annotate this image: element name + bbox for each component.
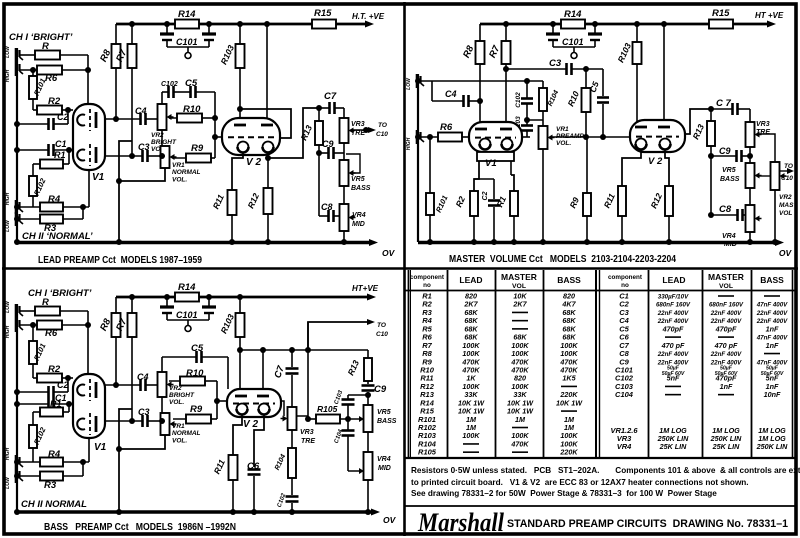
svg-text:VR4: VR4 xyxy=(352,212,366,219)
svg-text:C102: C102 xyxy=(161,81,178,88)
table row R105 xyxy=(418,448,578,457)
resistor R105 bass xyxy=(308,404,364,424)
svg-text:HIGH: HIGH xyxy=(406,137,412,150)
resistor R11 bass xyxy=(212,415,242,512)
wire - R7 node to ground bus xyxy=(119,141,132,242)
svg-text:R105: R105 xyxy=(418,448,437,457)
table row R1 xyxy=(422,292,575,301)
resistor R101 master xyxy=(426,137,450,242)
svg-text:1nF: 1nF xyxy=(766,324,779,333)
resistor R13 master xyxy=(690,109,715,156)
svg-text:TRE: TRE xyxy=(301,438,315,445)
svg-text:MID: MID xyxy=(352,221,365,228)
capacitor C6 bass xyxy=(247,415,264,512)
capacitor C4 bass xyxy=(105,372,158,391)
svg-text:C3: C3 xyxy=(549,58,562,69)
wire - V2 plate 2 supply master xyxy=(663,24,665,128)
resistor R5 bass xyxy=(20,297,88,316)
triode V1 master xyxy=(469,122,522,169)
svg-text:LOW: LOW xyxy=(406,77,412,90)
svg-text:VOL.: VOL. xyxy=(556,140,571,147)
junction dots BASS xyxy=(14,294,371,515)
table row R15 xyxy=(420,407,577,416)
table row R101 xyxy=(418,415,575,424)
svg-text:V1: V1 xyxy=(485,158,497,169)
wire - C102 to VR1 top xyxy=(527,119,543,121)
svg-text:TO: TO xyxy=(378,122,387,129)
wire - C102 bottom to V1 grid xyxy=(522,136,530,138)
resistor R103 master xyxy=(615,24,641,128)
potentiometer VR5 bass xyxy=(340,154,371,204)
svg-text:LEAD: LEAD xyxy=(459,275,482,285)
wire - master input ground bus xyxy=(417,74,419,242)
svg-text:10nF: 10nF xyxy=(764,390,781,399)
arrow HT +ve master xyxy=(755,11,784,28)
svg-text:V 2: V 2 xyxy=(243,419,258,430)
resistor R6 bass xyxy=(20,321,88,340)
table row R12 xyxy=(420,382,577,391)
svg-text:R4: R4 xyxy=(48,194,61,205)
resistor R10 bass xyxy=(169,368,217,386)
svg-text:C 7: C 7 xyxy=(716,98,732,109)
svg-text:C8: C8 xyxy=(719,204,732,215)
resistor R103 bass xyxy=(218,297,244,397)
Marshall logo xyxy=(417,508,788,537)
table row C4 xyxy=(619,316,788,325)
svg-text:VR2: VR2 xyxy=(779,194,792,201)
svg-text:LEAD PREAMP Cct MODELS 1987–1: LEAD PREAMP Cct MODELS 1987–1959 xyxy=(38,255,202,266)
svg-text:NORMAL: NORMAL xyxy=(172,430,201,437)
wire - input ground bus bass xyxy=(16,304,18,512)
resistor R2 master xyxy=(453,161,479,242)
quadrant divider vertical xyxy=(403,2,406,536)
svg-text:22nF 400V: 22nF 400V xyxy=(710,351,742,358)
svg-text:TRE: TRE xyxy=(756,129,770,136)
triode V1 bass xyxy=(73,374,107,453)
svg-text:1K5: 1K5 xyxy=(562,374,576,383)
svg-text:C9: C9 xyxy=(719,146,731,156)
input jack master high xyxy=(406,130,424,150)
resistor R9 master xyxy=(567,137,591,242)
node CH I BRIGHT xyxy=(9,32,73,43)
resistor R2 bass xyxy=(33,364,68,383)
triode V2 bass xyxy=(227,389,281,430)
potentiometer VR4 mid xyxy=(340,204,366,242)
svg-text:R15: R15 xyxy=(314,8,332,19)
wire - box right to V2 bass xyxy=(227,357,229,389)
resistor R1 master xyxy=(494,161,518,242)
svg-text:C6: C6 xyxy=(247,461,260,472)
svg-text:R14: R14 xyxy=(564,9,582,20)
resistor R101 xyxy=(29,70,48,110)
svg-text:NORMAL: NORMAL xyxy=(172,169,201,176)
capacitor C5 master xyxy=(588,69,609,137)
svg-text:R4: R4 xyxy=(48,449,61,460)
table row R14 xyxy=(420,398,583,407)
resistor R1 xyxy=(33,150,69,176)
wire - V2 plate to cathode follower grid xyxy=(240,109,291,138)
svg-text:220K: 220K xyxy=(559,448,578,457)
svg-text:STANDARD PREAMP CIRCUITS DRAW: STANDARD PREAMP CIRCUITS DRAWING No. 783… xyxy=(507,518,788,530)
svg-text:V 2: V 2 xyxy=(648,156,663,167)
wire - VR3 wiper to VR2 xyxy=(757,134,775,162)
resistor R15 xyxy=(312,8,336,29)
svg-text:VR3: VR3 xyxy=(756,121,770,128)
wire - LEAD HT supply rail xyxy=(116,23,366,26)
svg-text:LOW: LOW xyxy=(5,219,11,232)
capacitor C3 master xyxy=(506,58,603,75)
title MASTER VOLUME xyxy=(449,254,676,265)
resistor R5 xyxy=(20,41,88,60)
triode V1 xyxy=(73,104,105,183)
svg-text:470pF: 470pF xyxy=(715,324,737,333)
resistor R2 xyxy=(33,96,68,115)
wire - VR1 wiper to V2 grid xyxy=(551,136,630,138)
capacitor C101 bass xyxy=(160,297,216,332)
svg-text:C9: C9 xyxy=(374,384,387,395)
svg-text:MASTER: MASTER xyxy=(501,272,537,282)
svg-text:VOL.: VOL. xyxy=(172,177,187,184)
table row R7 xyxy=(422,341,578,350)
capacitor C4 xyxy=(105,106,158,125)
wire - R4 to V1 cathode xyxy=(88,170,90,207)
triode V2 xyxy=(222,118,280,168)
resistor R101 bass xyxy=(29,325,48,378)
table row R102 xyxy=(418,423,575,432)
potentiometer VR1 normal volume xyxy=(119,146,201,184)
svg-text:BASS PREAMP Cct MODELS 19: BASS PREAMP Cct MODELS 1986N –1992N xyxy=(44,522,236,533)
svg-text:to printed circuit board. V1: to printed circuit board. V1 & V2 are EC… xyxy=(411,478,749,487)
notes text xyxy=(411,466,800,498)
resistor R6 xyxy=(20,66,88,85)
potentiometer VR5 bass master xyxy=(720,163,771,205)
svg-text:R10: R10 xyxy=(183,104,201,115)
table row R2 xyxy=(422,300,576,309)
resistor R12 xyxy=(245,153,272,242)
wire - C103 column bass xyxy=(348,395,368,471)
table row VR3 xyxy=(617,434,786,443)
wire - VR3 to R105 xyxy=(296,322,308,419)
capacitor C8 master xyxy=(711,156,746,221)
table row R8 xyxy=(422,349,578,358)
svg-text:VR5: VR5 xyxy=(377,409,391,416)
svg-text:R9: R9 xyxy=(191,143,204,154)
svg-text:V1: V1 xyxy=(92,172,105,183)
svg-text:LEAD: LEAD xyxy=(662,275,685,285)
svg-text:C9: C9 xyxy=(322,139,334,149)
resistor R13 bass xyxy=(345,350,372,384)
wire - low input to R104 xyxy=(421,81,543,101)
wire - V2 grid feed xyxy=(215,92,222,158)
wire - BASS 0V rail xyxy=(17,509,397,526)
resistor R104 bass xyxy=(274,448,296,495)
svg-text:10K 1W: 10K 1W xyxy=(556,398,583,407)
svg-text:VR5: VR5 xyxy=(722,167,736,174)
svg-text:330µF/10V: 330µF/10V xyxy=(658,294,689,301)
svg-text:470 pF: 470 pF xyxy=(661,341,685,350)
wire - output to C10 bass xyxy=(308,319,388,350)
capacitor C8 xyxy=(319,153,340,222)
capacitor C2 xyxy=(17,110,73,130)
capacitor C5 bass xyxy=(162,343,228,363)
capacitor C3 xyxy=(105,142,162,162)
svg-text:C2: C2 xyxy=(57,112,69,122)
svg-text:BRIGHT: BRIGHT xyxy=(151,139,177,146)
resistor R10 xyxy=(169,104,215,123)
svg-text:R10: R10 xyxy=(186,368,204,379)
capacitor C101 master xyxy=(546,24,602,59)
capacitor C102 C103 master xyxy=(515,81,533,137)
table row C6 xyxy=(619,333,788,342)
svg-text:R1: R1 xyxy=(50,399,62,409)
svg-text:R6: R6 xyxy=(440,122,453,133)
svg-text:H.T. +VE: H.T. +VE xyxy=(352,12,385,21)
svg-text:BASS: BASS xyxy=(557,275,581,285)
wire - LEAD 0V rail xyxy=(17,239,396,258)
wire - plate node bass xyxy=(240,350,368,397)
svg-text:V 2: V 2 xyxy=(246,157,261,168)
svg-text:25K LIN: 25K LIN xyxy=(659,442,688,451)
capacitor C3 bass xyxy=(105,407,162,427)
potentiometer VR1 normal volume bass xyxy=(119,413,201,449)
svg-text:R9: R9 xyxy=(190,404,203,415)
resistor R102 bass xyxy=(29,425,48,462)
resistor R6 master xyxy=(421,122,469,142)
svg-text:1nF: 1nF xyxy=(720,382,733,391)
svg-text:R2: R2 xyxy=(48,96,61,107)
svg-text:VR3: VR3 xyxy=(351,121,365,128)
table row R104 xyxy=(418,439,578,448)
svg-text:C4: C4 xyxy=(445,89,457,99)
svg-text:470 pF: 470 pF xyxy=(714,341,738,350)
svg-text:VOL.: VOL. xyxy=(169,399,184,406)
svg-text:CH II NORMAL: CH II NORMAL xyxy=(21,499,87,510)
svg-text:OV: OV xyxy=(383,515,397,525)
potentiometer VR2 bright volume bass xyxy=(158,357,195,421)
wire - MASTER 0V rail xyxy=(418,239,792,258)
table row R9 xyxy=(422,357,578,366)
resistor R15 master xyxy=(709,8,733,29)
table row R5 xyxy=(422,324,576,333)
svg-text:Resistors 0·5W unless stated.: Resistors 0·5W unless stated. PCB ST1–20… xyxy=(411,466,800,475)
resistor R14 xyxy=(175,9,199,29)
table row C104 xyxy=(615,390,781,399)
resistor R14 bass xyxy=(175,282,199,302)
svg-text:HT+VE: HT+VE xyxy=(352,284,379,293)
input jack CH I low xyxy=(5,62,23,82)
svg-text:VR4: VR4 xyxy=(377,456,391,463)
resistor R11 master xyxy=(602,149,641,242)
svg-text:no: no xyxy=(423,282,431,289)
input jack bass CH II high xyxy=(5,447,23,469)
table row C5 xyxy=(619,324,779,333)
potentiometer VR1 preamp volume xyxy=(539,126,585,242)
capacitor C7 master xyxy=(711,98,750,115)
capacitor C104 bass xyxy=(334,428,355,444)
svg-text:BASS: BASS xyxy=(377,418,397,425)
wire - R7 node to ground bus bass xyxy=(119,409,132,512)
svg-text:CH I ‘BRIGHT’: CH I ‘BRIGHT’ xyxy=(28,288,92,299)
svg-text:CH II ‘NORMAL’: CH II ‘NORMAL’ xyxy=(22,231,93,242)
potentiometer VR2 master volume xyxy=(771,162,795,242)
svg-text:C5: C5 xyxy=(191,343,204,354)
capacitor C103 bass xyxy=(334,389,355,405)
svg-text:VR1: VR1 xyxy=(556,126,569,133)
wire - C104 to VR4 wiper xyxy=(348,468,364,474)
svg-text:250K LIN: 250K LIN xyxy=(756,442,789,451)
svg-text:VR2: VR2 xyxy=(151,132,164,139)
table row VR4 xyxy=(617,442,788,451)
svg-text:VOL: VOL xyxy=(719,283,733,290)
resistor R9 xyxy=(173,143,215,163)
capacitor C7 bass xyxy=(272,350,298,407)
svg-text:VR1: VR1 xyxy=(172,162,185,169)
table row C103 xyxy=(615,382,779,391)
svg-text:R: R xyxy=(42,41,49,52)
svg-text:R1: R1 xyxy=(54,150,66,160)
resistor R4 xyxy=(20,194,89,212)
title LEAD PREAMP xyxy=(38,255,202,266)
svg-text:MAS: MAS xyxy=(779,202,794,209)
svg-text:47nF 400V: 47nF 400V xyxy=(756,302,788,309)
wire - input ground bus xyxy=(16,48,18,242)
capacitor C1 xyxy=(17,139,73,156)
table row C101 xyxy=(615,365,784,377)
resistor R102 xyxy=(29,176,48,207)
svg-text:C10: C10 xyxy=(781,175,793,182)
svg-text:R14: R14 xyxy=(178,9,196,20)
svg-text:C10: C10 xyxy=(376,331,388,338)
table row C7 xyxy=(619,341,779,350)
svg-text:R14: R14 xyxy=(178,282,196,293)
svg-text:R105: R105 xyxy=(317,404,338,414)
capacitor C102 bass xyxy=(277,492,299,512)
capacitor C4 master xyxy=(432,89,480,107)
svg-text:1M: 1M xyxy=(515,415,526,424)
table row C9 xyxy=(619,357,788,366)
svg-text:22nF 400V: 22nF 400V xyxy=(657,351,689,358)
svg-text:HIGH: HIGH xyxy=(5,192,11,205)
capacitor C9 xyxy=(319,139,344,159)
svg-text:LOW: LOW xyxy=(5,45,11,58)
svg-text:MASTER VOLUME Cct MODELS 2: MASTER VOLUME Cct MODELS 2103-2104-2203-… xyxy=(449,254,676,265)
svg-text:BASS: BASS xyxy=(351,185,371,192)
svg-text:R3: R3 xyxy=(44,480,57,491)
svg-text:22nF 400V: 22nF 400V xyxy=(710,310,742,317)
resistor R4 bass xyxy=(20,449,89,467)
svg-text:Marshall: Marshall xyxy=(417,508,505,537)
svg-text:See drawing 78331–2 for 50W P: See drawing 78331–2 for 50W Power Stage … xyxy=(411,489,717,498)
table row R13 xyxy=(420,390,578,399)
resistor R11 xyxy=(211,153,243,242)
svg-text:VR4: VR4 xyxy=(722,233,736,240)
wire - BASS HT supply rail xyxy=(116,296,368,299)
resistor R13 xyxy=(298,108,323,153)
svg-text:C8: C8 xyxy=(321,202,333,212)
potentiometer VR4 mid bass xyxy=(364,452,391,512)
svg-text:C3: C3 xyxy=(138,142,150,152)
svg-text:C10: C10 xyxy=(376,131,388,138)
wire - cathode follower output to tone stack xyxy=(268,108,319,158)
svg-text:R3: R3 xyxy=(44,223,57,234)
svg-text:BRIGHT: BRIGHT xyxy=(169,392,195,399)
resistor R14 master xyxy=(561,9,585,29)
svg-text:component: component xyxy=(410,274,445,281)
resistor R103 xyxy=(218,24,244,126)
svg-text:LOW: LOW xyxy=(5,476,11,489)
potentiometer VR3 treble xyxy=(340,108,366,160)
table row R3 xyxy=(422,308,576,317)
table row R6 xyxy=(422,333,576,342)
wire - V2 grid feed bass xyxy=(217,381,227,419)
table row C8 xyxy=(619,349,780,358)
svg-text:VOL: VOL xyxy=(512,283,526,290)
svg-text:HIGH: HIGH xyxy=(5,325,11,338)
svg-text:C7: C7 xyxy=(324,91,337,102)
table headers xyxy=(410,272,784,290)
potentiometer VR5 bass quadrant xyxy=(364,405,397,452)
svg-text:MID: MID xyxy=(378,465,391,472)
resistor R3 xyxy=(20,207,83,234)
svg-text:HIGH: HIGH xyxy=(5,447,11,460)
table row C3 xyxy=(619,308,788,317)
input jack master low xyxy=(406,74,424,90)
wire - MASTER HT supply rail xyxy=(480,23,768,26)
svg-text:OV: OV xyxy=(779,248,793,258)
potentiometer VR2 bright volume xyxy=(151,92,177,156)
capacitor C2 bass xyxy=(17,378,73,398)
input jack CH I high xyxy=(5,45,23,62)
svg-text:C101: C101 xyxy=(176,310,198,320)
svg-text:LOW: LOW xyxy=(5,300,11,313)
svg-text:C101: C101 xyxy=(562,37,584,47)
svg-text:C2: C2 xyxy=(482,191,489,200)
svg-text:22nF 400V: 22nF 400V xyxy=(657,310,689,317)
svg-text:VR1: VR1 xyxy=(172,423,185,430)
junction dots MASTER xyxy=(415,21,778,245)
resistor R104 master xyxy=(539,81,560,126)
svg-text:TO: TO xyxy=(784,163,793,170)
resistor R1 bass xyxy=(33,399,69,425)
notes divider xyxy=(405,505,795,507)
quadrant divider horizontal xyxy=(2,267,798,270)
capacitor C102 xyxy=(161,81,178,98)
svg-text:100K: 100K xyxy=(462,431,480,440)
potentiometer VR3 treble master xyxy=(746,109,771,163)
capacitor C9 bass xyxy=(362,384,387,405)
component table grid xyxy=(405,270,795,458)
junction dots LEAD xyxy=(14,21,369,245)
capacitor C7 xyxy=(319,91,344,114)
input jack bass CH II low xyxy=(5,469,23,489)
svg-text:470K: 470K xyxy=(510,439,529,448)
svg-text:5nF: 5nF xyxy=(667,374,680,383)
wire - R5 to V1 grid bass xyxy=(87,311,89,374)
node CH II NORMAL xyxy=(22,231,93,242)
svg-text:470pF: 470pF xyxy=(662,324,684,333)
svg-text:V1: V1 xyxy=(94,442,107,453)
capacitor C5 xyxy=(174,78,215,98)
wire - V2 plate 2 supply xyxy=(266,24,268,126)
potentiometer VR3 treble bass xyxy=(281,401,316,448)
table row C2 xyxy=(619,300,788,309)
triode V2 master xyxy=(630,120,685,167)
arrow HT +ve bass xyxy=(352,284,379,301)
svg-text:VOL.: VOL. xyxy=(172,438,187,445)
svg-text:R: R xyxy=(42,297,49,308)
svg-text:R2: R2 xyxy=(48,364,61,375)
table row C1 xyxy=(619,292,780,301)
